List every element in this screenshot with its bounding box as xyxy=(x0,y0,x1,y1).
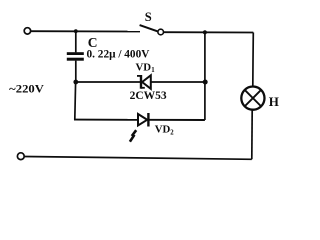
lamp H xyxy=(241,87,264,110)
zener diode VD1 (2CW53) xyxy=(137,75,151,89)
wire: right vertical down to lamp xyxy=(252,33,255,88)
wire: middle vertical (diode pair right node up to top wire) xyxy=(204,32,206,120)
wire: VD1 branch left segment xyxy=(76,81,140,83)
label ~220V xyxy=(9,83,44,95)
svg-text:2CW53: 2CW53 xyxy=(130,90,167,102)
switch S blade xyxy=(140,25,158,31)
wire: capacitor bottom lead down to VD1 branch xyxy=(75,61,77,82)
svg-text:1: 1 xyxy=(151,67,155,74)
LED VD2 xyxy=(138,113,148,127)
capacitor C xyxy=(67,52,84,61)
wire: lamp bottom lead down to bottom wire xyxy=(251,109,253,159)
svg-text:C: C xyxy=(88,35,98,50)
terminal (top-left input) xyxy=(24,28,30,34)
svg-text:0. 22μ / 400V: 0. 22μ / 400V xyxy=(87,49,151,61)
wire: VD2 branch right segment xyxy=(149,119,205,121)
label VD2 xyxy=(155,123,175,136)
wire: VD1 branch right segment xyxy=(151,81,205,83)
wire top-left: terminal to switch xyxy=(31,30,140,32)
value 2CW53 xyxy=(130,90,167,102)
junction dot: left node of diode pair xyxy=(73,80,78,85)
svg-text:H: H xyxy=(269,94,279,109)
label H xyxy=(269,94,279,109)
label VD1 xyxy=(136,61,156,74)
svg-text:S: S xyxy=(145,10,152,24)
svg-text:VD: VD xyxy=(136,61,152,73)
wire: left side down to VD2 branch xyxy=(74,82,77,120)
label C xyxy=(88,35,98,50)
svg-text:2: 2 xyxy=(170,130,174,137)
light emission arrow of VD2 xyxy=(130,130,136,142)
junction dot: right node of diode pair xyxy=(203,80,208,85)
wire: bottom return to terminal xyxy=(25,157,252,160)
junction dot: capacitor tap on top wire xyxy=(74,29,78,33)
wire: switch to top-right corner xyxy=(164,31,254,33)
terminal (bottom-left input) xyxy=(17,153,24,160)
svg-text:~220V: ~220V xyxy=(9,83,44,95)
switch S contact circle xyxy=(158,29,164,35)
value 0.22μ/400V xyxy=(87,49,151,61)
wire: capacitor top lead xyxy=(75,31,77,52)
junction dot: middle vertical on top wire xyxy=(203,30,207,34)
svg-text:VD: VD xyxy=(155,123,171,135)
label S xyxy=(145,10,152,24)
wire: VD2 branch left segment xyxy=(74,119,138,121)
